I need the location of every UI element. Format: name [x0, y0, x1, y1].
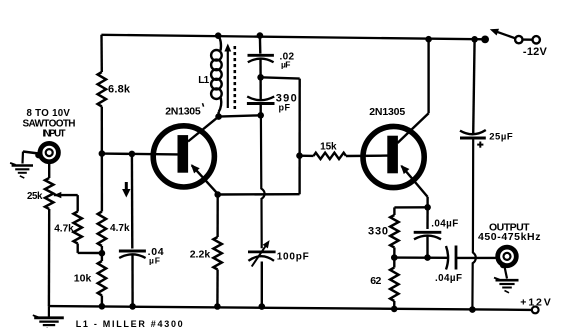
label input text [23, 108, 76, 139]
svg-text:pF: pF [279, 102, 291, 112]
svg-text:10k: 10k [74, 272, 92, 284]
capacitor C7 25uF electrolytic [460, 130, 486, 138]
wire Q1 emitter lead [191, 164, 218, 194]
node C2/C3 feedback tap [257, 74, 264, 81]
node base wire to C1 branch [129, 151, 136, 158]
wire C2 to C3 [259, 59, 262, 78]
arrow test-point marker [122, 182, 130, 198]
svg-text:25µF: 25µF [489, 132, 513, 143]
resistor R4 4.7k [98, 212, 106, 247]
node supply branch to bottom rail [469, 306, 476, 313]
wire Q1 base [102, 152, 178, 155]
wire Q1 collector lead [188, 117, 219, 142]
node Q1 base tap [99, 150, 106, 157]
label Q2 2N1305 [369, 106, 405, 118]
connector +12V terminal [532, 307, 539, 314]
inductor L1 coil [211, 36, 222, 117]
wire input jack shell to ground [23, 152, 39, 164]
wire C5 to node [426, 236, 428, 258]
capacitor C1 .04uF [119, 251, 146, 258]
node junction R3/R4/R5 [99, 250, 106, 257]
capacitor C2 .02uF [248, 55, 274, 62]
ground main bottom-left [33, 306, 64, 328]
node 15k tap [296, 152, 303, 159]
svg-text:.04µF: .04µF [435, 273, 462, 284]
label output text [478, 221, 541, 243]
resistor R3 4.7k [74, 212, 82, 244]
wire R3 bottom to node [78, 244, 102, 254]
label -12V [523, 46, 548, 58]
label C6 value [435, 273, 462, 284]
wire C3 top lead [259, 77, 262, 100]
wire R9 top lead [393, 258, 395, 268]
wire tank to C4 with crossover jog [261, 115, 265, 248]
wire top supply rail [101, 35, 486, 40]
label C3 value [276, 93, 297, 113]
label C4 value [277, 252, 309, 263]
svg-text:2N1305: 2N1305 [165, 105, 201, 117]
label L1 part note [76, 319, 183, 328]
svg-text:4.7k: 4.7k [54, 224, 74, 235]
label C7 value [489, 132, 513, 143]
wire R2 lower leg to rail [48, 209, 51, 306]
svg-text:62: 62 [370, 275, 381, 287]
svg-text:INPUT: INPUT [43, 128, 66, 139]
label R5 10k [74, 272, 92, 284]
svg-text:100pF: 100pF [277, 252, 309, 263]
ground input jack shell [10, 163, 33, 178]
label L1 [198, 75, 209, 86]
label C5 value [431, 219, 458, 230]
potentiometer R2 25k [45, 178, 53, 209]
node L1 top on rail [215, 32, 222, 39]
label R1 6.8k [108, 84, 131, 96]
wire node to C6 [394, 256, 448, 259]
wire C1 lower [131, 255, 134, 307]
svg-text:2N1305: 2N1305 [369, 106, 405, 118]
wire feedback tap to 15k branch [261, 77, 300, 194]
svg-text:15k: 15k [320, 141, 337, 152]
wire Q1 emitter coupling [218, 193, 300, 196]
capacitor C5 .04uF [414, 232, 442, 239]
node R5 to bottom rail [99, 303, 106, 310]
capacitor C3 390pF [247, 97, 275, 104]
node R6 to bottom rail [214, 303, 221, 310]
svg-text:.04µF: .04µF [431, 219, 458, 230]
wire C4 to bottom rail [261, 262, 263, 307]
node Q1 emitter junction [214, 191, 221, 198]
label R4 4.7k [110, 223, 130, 234]
wire node to R7 [300, 154, 314, 157]
svg-text:+12V: +12V [520, 297, 551, 309]
resistor R5 10k [98, 261, 106, 296]
node Q2 emitter junction [424, 204, 431, 211]
label Q1 2N1305 [165, 103, 203, 117]
wire R6 to bottom rail [216, 270, 219, 307]
label R3 4.7k [54, 224, 74, 235]
node R9 to bottom rail [391, 306, 398, 313]
label R9 62 [370, 275, 381, 287]
label R8 330 [368, 225, 388, 237]
label C7 polarity plus [477, 142, 483, 148]
svg-text:µF: µF [149, 256, 160, 266]
svg-text:330: 330 [368, 225, 388, 237]
label +12V [520, 297, 551, 309]
wire emitter node to C5 [426, 207, 429, 229]
svg-text:2.2k: 2.2k [190, 248, 211, 260]
wire R9 to bottom rail [393, 301, 395, 309]
resistor R6 2.2k [213, 237, 221, 270]
node switch pole [481, 36, 489, 44]
label R2 25k [27, 191, 43, 202]
wire J2 shell to ground [505, 267, 508, 279]
wire supply branch lower with crossover jog [472, 138, 475, 310]
node R8/R9/C5 junction [391, 254, 398, 261]
node supply branch on rail [471, 36, 478, 43]
wire rail to C2 [259, 36, 262, 54]
svg-text:8 TO 10V: 8 TO 10V [27, 108, 71, 119]
connector J1 sawtooth input jack [35, 143, 58, 161]
resistor R9 62 [390, 268, 398, 302]
capacitor C6 .04uF coupling [446, 246, 456, 270]
switch S1 blade [490, 29, 516, 39]
inductor L1 tuning slug arrow [224, 44, 231, 109]
inductor L1 core dashed line [234, 46, 237, 109]
wire R8 to node [393, 248, 396, 258]
svg-text:4.7k: 4.7k [110, 223, 130, 234]
node C5 bottom junction [424, 254, 431, 261]
switch S1 contacts [515, 36, 540, 44]
connector J2 output jack [498, 247, 517, 268]
svg-text:450-475kHz: 450-475kHz [478, 231, 541, 243]
svg-text:L1: L1 [198, 75, 209, 86]
wire C6 to output jack [456, 257, 496, 259]
transistor Q2 2N1305 [363, 126, 424, 187]
node L1 bottom / Q1 collector [215, 113, 222, 120]
node Q2 collector on rail [425, 36, 432, 43]
node C4 to bottom rail [259, 303, 266, 310]
wire emitter node to R8 [394, 207, 427, 215]
label R6 2.2k [190, 248, 211, 260]
wire L1 bottom to C2/C3 node [219, 115, 261, 116]
svg-text:25k: 25k [27, 191, 43, 202]
wire supply branch upper [473, 39, 474, 134]
ground output jack [494, 278, 519, 293]
svg-text:-12V: -12V [523, 46, 548, 58]
label C2 value [280, 51, 295, 69]
resistor R7 15k [314, 153, 347, 159]
wire Q2 collector lead [398, 39, 429, 143]
wire R2 wiper arm [54, 192, 78, 212]
wire Q1 emitter to R6 [216, 195, 218, 238]
wire C3 bottom lead [260, 104, 262, 116]
wire C1 branch upper [131, 154, 134, 249]
node C2 top on rail [257, 32, 264, 39]
transistor Q1 2N1305 [153, 126, 214, 187]
wire left divider branch vertical [100, 35, 103, 307]
resistor R1 6.8k [98, 72, 106, 107]
capacitor C4 100pF variable [248, 240, 276, 266]
node C3 bottom junction [257, 112, 264, 119]
svg-text:µF: µF [281, 60, 291, 70]
resistor R8 330 [390, 215, 398, 248]
label C1 value [148, 246, 164, 266]
node C1 to bottom rail [129, 303, 136, 310]
svg-text:6.8k: 6.8k [108, 84, 131, 96]
wire bottom ground rail [49, 306, 532, 310]
wire J1 to R2 [48, 162, 50, 178]
wire R7 to Q2 base [346, 154, 388, 157]
label R7 15k [320, 141, 337, 152]
wire Q2 emitter lead [401, 165, 428, 207]
